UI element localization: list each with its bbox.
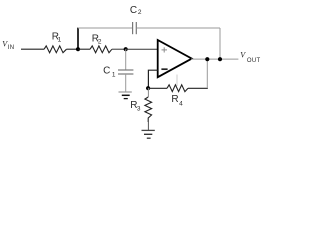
wire node A up to top feedback [77,28,79,50]
node A junction dot [76,47,80,51]
wire op-amp inverting input [148,70,157,88]
svg-text:IN: IN [8,45,15,51]
node VIN label [2,40,14,52]
node output junction dot top feedback [218,57,222,61]
label C1 [103,66,116,79]
wire junction to R3 [147,88,149,97]
op-amp U1 [158,40,192,77]
capacitor C2 [133,22,137,34]
svg-text:2: 2 [138,9,142,16]
label R4 [171,94,183,107]
wire node B to op-amp noninverting input [126,48,158,50]
svg-text:C: C [130,5,137,16]
wire top feedback down to output node [219,28,221,59]
resistor R3 [145,97,152,122]
ground C1 [119,92,132,99]
wire op-amp output to VOUT [191,58,238,60]
resistor R1 [44,46,66,53]
capacitor C1 [118,70,133,74]
wire top feedback to C2 [78,27,132,29]
wire R3 to ground [147,122,149,130]
svg-text:1: 1 [58,37,62,44]
wire node B down to C1 [125,49,127,70]
node output junction dot feedback [205,57,209,61]
resistor R2 [90,46,112,53]
svg-text:R: R [171,94,178,105]
ground R3 [142,130,155,138]
node VOUT label [240,51,260,65]
wire VIN to R1 [21,48,44,50]
wire C2 to output column [137,27,220,29]
label R3 [130,100,141,113]
wire node A to R2 [78,48,90,50]
wire junction to R4 [148,87,167,89]
label C2 [130,5,142,16]
svg-text:1: 1 [112,72,116,79]
wire R2 to node B [112,48,126,50]
node B junction dot [124,47,128,51]
wire R1 to node A [66,48,78,50]
svg-text:3: 3 [137,106,141,113]
node feedback junction dot [146,86,150,90]
svg-text:OUT: OUT [247,58,261,64]
svg-text:C: C [103,66,110,77]
wire C1 to ground [125,74,127,92]
svg-text:4: 4 [179,101,183,108]
wire R4 to output column [188,87,208,89]
wire output node down to R4 [206,59,208,88]
wire stub above R4 [176,75,178,87]
label R1 [52,32,62,44]
svg-text:2: 2 [98,38,102,45]
resistor R4 [167,85,188,92]
label R2 [92,33,102,45]
